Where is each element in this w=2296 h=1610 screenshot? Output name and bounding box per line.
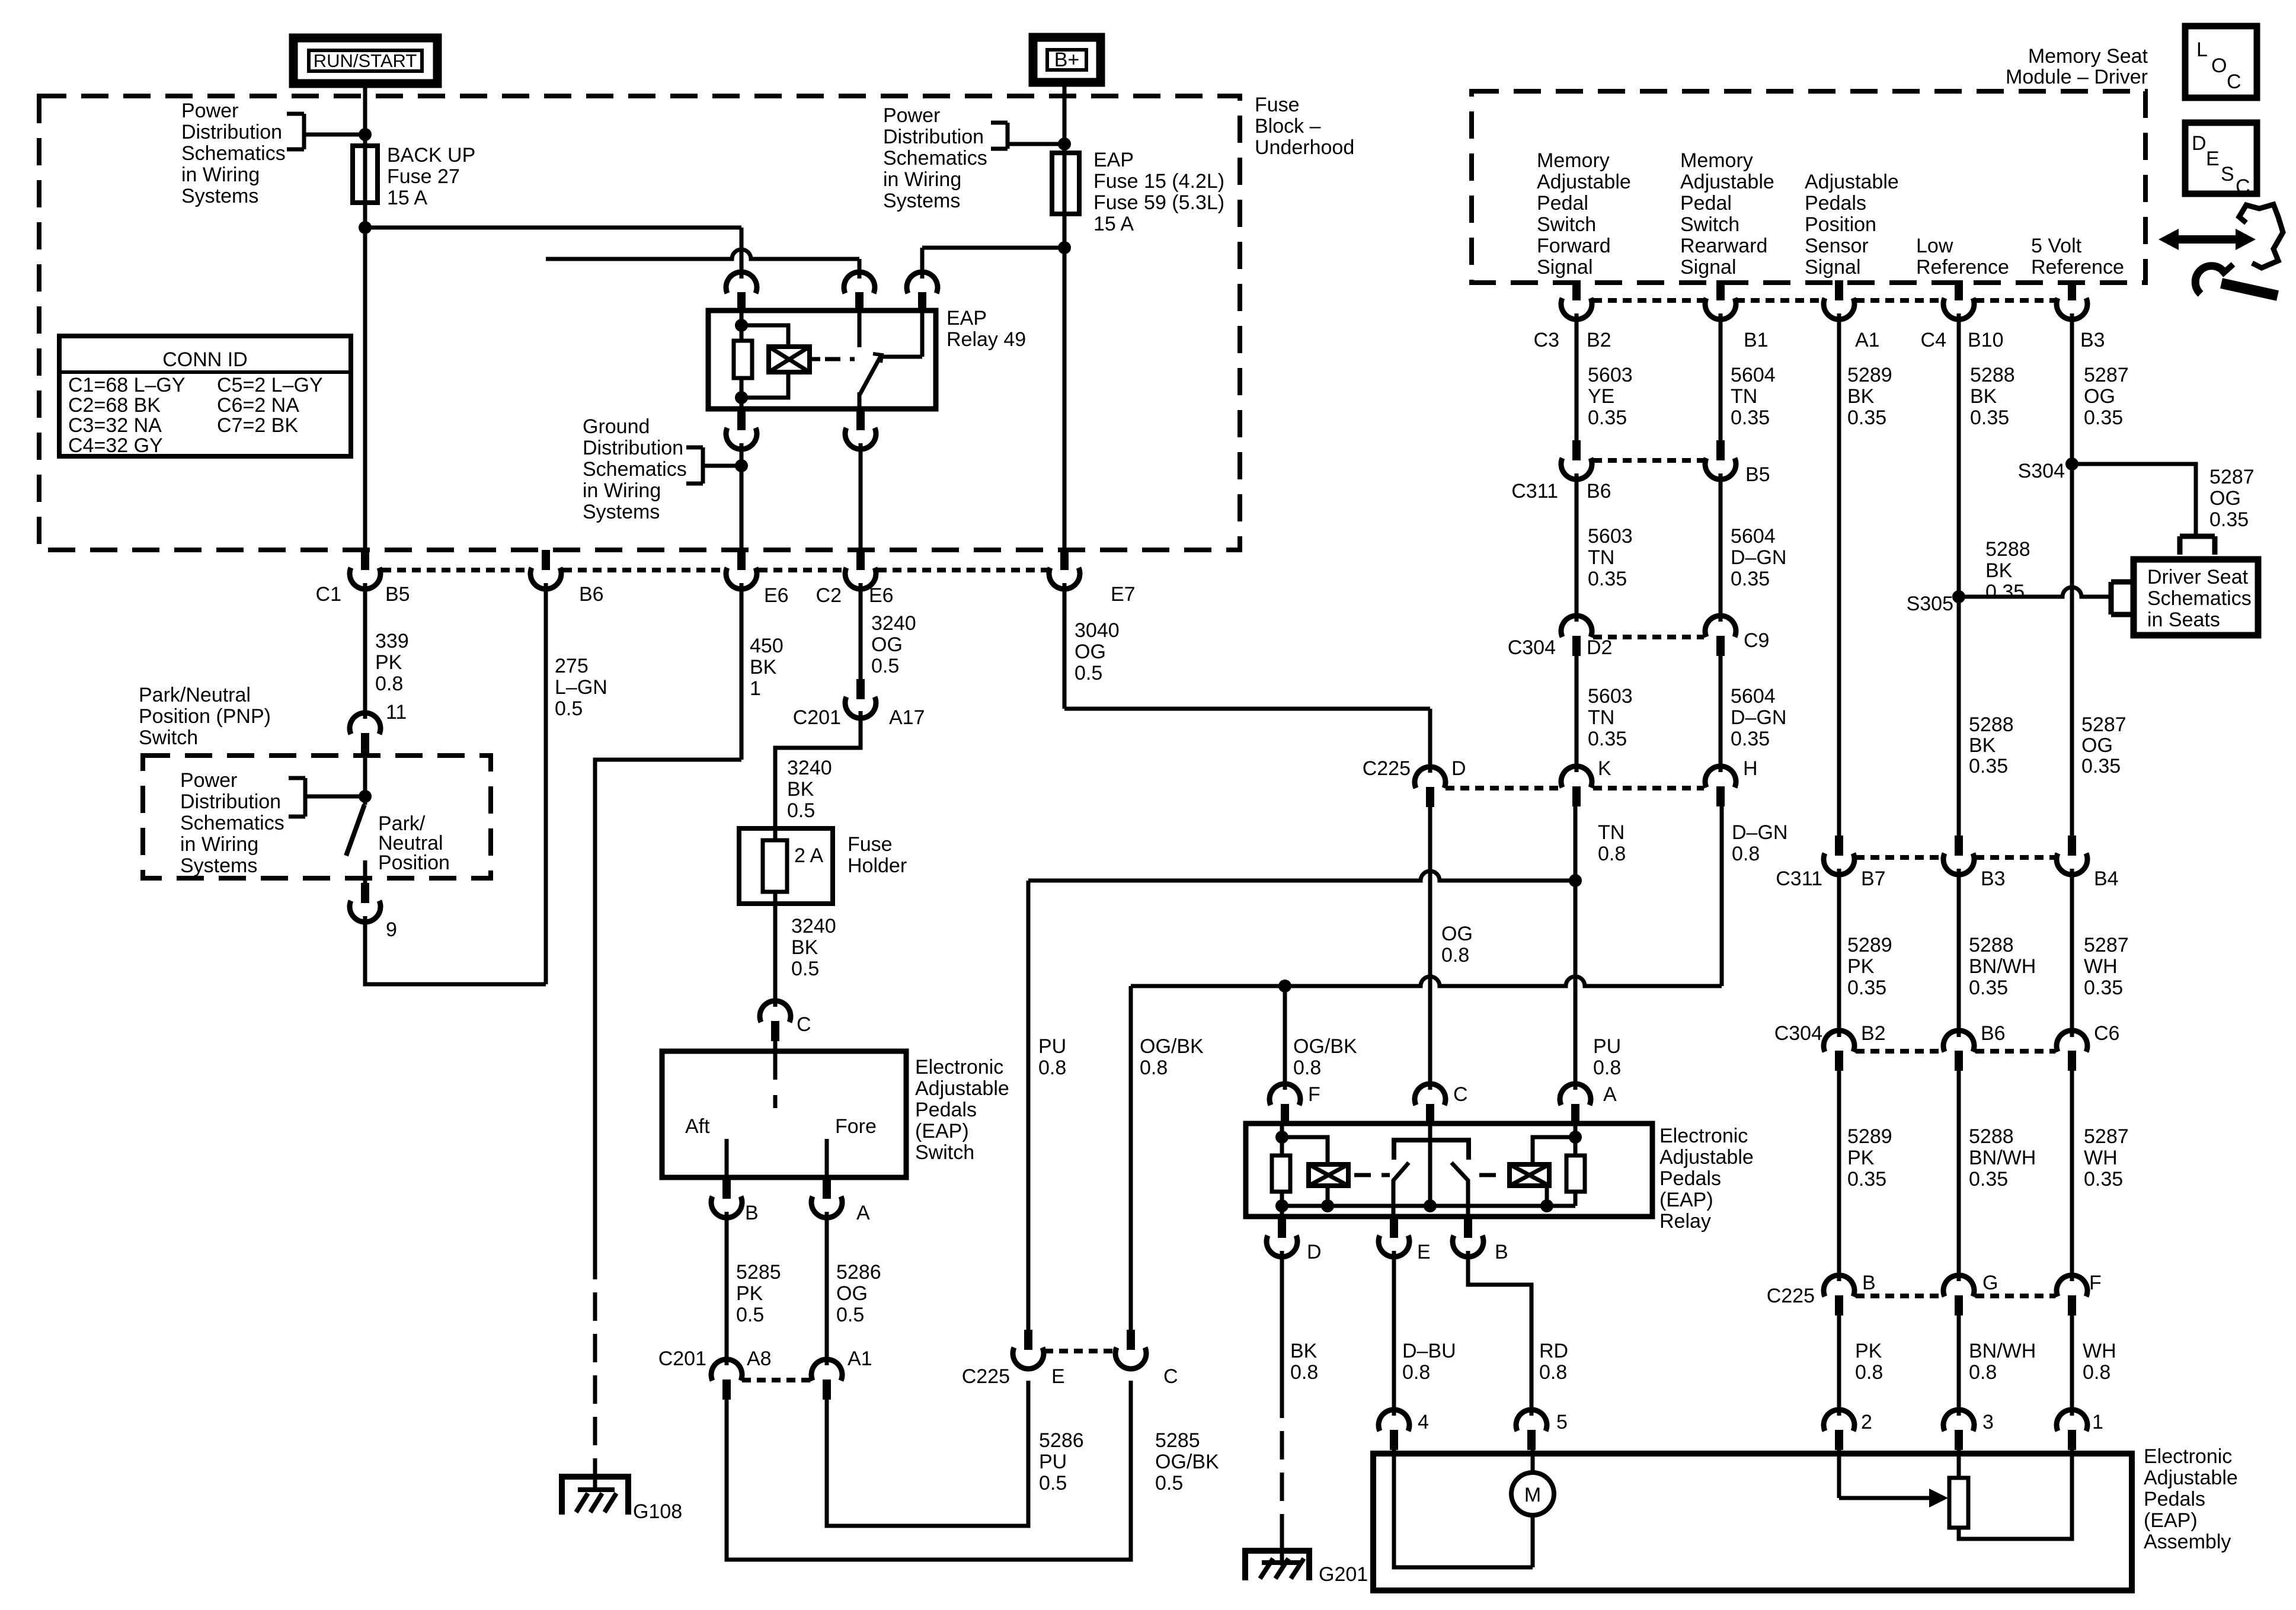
relay blade right	[1451, 1163, 1468, 1217]
connector row dashes C225 lower	[1044, 1349, 1115, 1353]
svg-text:Electronic: Electronic	[2144, 1445, 2232, 1468]
connector relay pin C	[1415, 1084, 1446, 1105]
wire 450 BK jog left	[595, 760, 741, 1251]
svg-text:0.35: 0.35	[1847, 977, 1886, 999]
svg-text:C2: C2	[816, 584, 842, 607]
wire 5288 BN/WH (B6-G)	[1957, 1071, 1961, 1281]
node PNP junction	[359, 790, 372, 803]
connector module pin C3/B2	[1572, 280, 1581, 300]
svg-text:5288: 5288	[1969, 1125, 2014, 1148]
power rail tag B+	[1033, 37, 1101, 82]
node relay49 coil bottom	[735, 391, 748, 404]
connector PNP pin 11	[350, 713, 380, 734]
svg-text:Power: Power	[180, 769, 237, 792]
EAP assembly box	[1373, 1454, 2132, 1590]
connector relay pin B	[1464, 1218, 1472, 1238]
svg-text:B6: B6	[579, 583, 604, 606]
svg-text:5286: 5286	[1039, 1429, 1084, 1452]
svg-text:Relay 49: Relay 49	[946, 328, 1026, 351]
wire motor to loop	[1531, 1515, 1535, 1567]
svg-text:Assembly: Assembly	[2144, 1531, 2231, 1553]
reference bracket Power Distribution (PNP)	[289, 776, 305, 780]
svg-text:PK: PK	[1855, 1340, 1882, 1362]
svg-text:TN: TN	[1598, 821, 1625, 844]
relay coil1 branch	[1282, 1137, 1328, 1164]
relay K49 box	[708, 311, 936, 409]
svg-text:Power: Power	[181, 100, 238, 122]
wire 5604 D-GN (B5-C9)	[1719, 473, 1723, 622]
svg-text:15 A: 15 A	[1093, 213, 1134, 235]
svg-text:1: 1	[2092, 1411, 2103, 1433]
connector C311 pin B5	[1716, 440, 1725, 460]
svg-text:A: A	[1603, 1083, 1617, 1106]
sensor loop to pin1	[1959, 1450, 2072, 1539]
svg-text:D–GN: D–GN	[1731, 706, 1786, 729]
wire relay contact to C2/E6	[859, 443, 863, 550]
svg-text:Fuse 59 (5.3L): Fuse 59 (5.3L)	[1093, 191, 1224, 214]
wire 5603 TN (B6-D2)	[1575, 473, 1579, 622]
svg-text:OG: OG	[1441, 923, 1473, 945]
svg-text:2 A: 2 A	[794, 844, 823, 867]
svg-text:BN/WH: BN/WH	[1969, 1340, 2036, 1362]
fuse 2A in holder	[773, 828, 778, 840]
node junction ground-distribution branch	[735, 459, 748, 472]
svg-text:Pedal: Pedal	[1680, 192, 1732, 215]
svg-text:0.8: 0.8	[1140, 1057, 1168, 1079]
node relay coil1 bottom	[1275, 1199, 1288, 1212]
connector C201 pin A1	[811, 1359, 842, 1381]
svg-text:Switch: Switch	[1680, 213, 1739, 236]
svg-text:Pedal: Pedal	[1537, 192, 1588, 215]
svg-text:BK: BK	[1847, 385, 1875, 408]
svg-text:BK: BK	[1985, 559, 2013, 582]
resistor relay49 internal	[734, 341, 752, 378]
svg-text:Adjustable: Adjustable	[915, 1077, 1009, 1100]
svg-text:B: B	[1495, 1241, 1508, 1263]
connector EAP assembly pin 4	[1379, 1410, 1409, 1431]
svg-text:C: C	[2227, 71, 2241, 93]
svg-text:Fuse 27: Fuse 27	[387, 165, 460, 188]
wire 5289 PK (B7-B2)	[1837, 869, 1841, 1037]
wire 5287 OG (lower)	[2070, 464, 2074, 837]
node bus coil2 link	[1540, 1199, 1553, 1212]
svg-text:PK: PK	[1847, 1147, 1875, 1169]
wire S304 branch to driver seat	[2072, 464, 2196, 536]
svg-text:0.35: 0.35	[2084, 977, 2123, 999]
connector EAP assembly pin 1	[2057, 1410, 2087, 1431]
svg-text:Module – Driver: Module – Driver	[2006, 66, 2148, 88]
wire relay49 parallel branch	[741, 325, 788, 347]
svg-text:RD: RD	[1539, 1340, 1568, 1362]
connector C311 pin B7	[1835, 836, 1843, 856]
svg-text:0.8: 0.8	[1293, 1057, 1321, 1079]
svg-text:0.35: 0.35	[1970, 406, 2009, 429]
svg-text:5604: 5604	[1731, 525, 1776, 548]
svg-text:5287: 5287	[2081, 713, 2126, 736]
svg-text:Position: Position	[378, 852, 450, 874]
svg-text:0.8: 0.8	[1038, 1057, 1066, 1079]
connector C225 pin C	[1127, 1330, 1135, 1350]
wire 339 PK	[363, 583, 367, 719]
wire 5604 TN	[1719, 313, 1723, 440]
svg-text:Distribution: Distribution	[181, 121, 282, 143]
svg-text:Schematics: Schematics	[181, 142, 286, 165]
svg-text:in Wiring: in Wiring	[583, 479, 661, 502]
connector C225 pin H	[1705, 766, 1736, 788]
svg-text:C6=2 NA: C6=2 NA	[217, 394, 299, 417]
svg-text:D: D	[1307, 1241, 1322, 1263]
svg-text:C: C	[1453, 1083, 1468, 1106]
relay coil2 (box with X)	[1510, 1164, 1549, 1186]
connector row dashes C304 left	[1593, 635, 1704, 639]
connector relay pin D	[1278, 1218, 1286, 1238]
connector fuse block pin E6	[737, 550, 746, 570]
adjust icon pedal outline	[2239, 204, 2283, 268]
wire pin5 to motor	[1531, 1450, 1535, 1473]
wire A1 U-turn to C225 E	[827, 1381, 1028, 1526]
svg-text:Schematics: Schematics	[883, 147, 987, 169]
svg-text:0.35: 0.35	[1588, 406, 1627, 429]
svg-text:450: 450	[750, 635, 784, 657]
svg-text:Power: Power	[883, 104, 940, 127]
svg-text:0.5: 0.5	[1155, 1472, 1183, 1494]
svg-text:TN: TN	[1731, 385, 1757, 408]
svg-text:E: E	[2206, 148, 2220, 170]
node junction OG/BK branch	[1278, 980, 1291, 993]
svg-text:(EAP): (EAP)	[915, 1120, 969, 1142]
relay blade left	[1393, 1163, 1409, 1217]
svg-text:in Wiring: in Wiring	[180, 833, 258, 856]
wire 5604 D-GN (C9-H)	[1719, 656, 1723, 772]
memory seat module dashed outline	[1472, 91, 2145, 283]
wire relay49 switch feed from B+ junction	[922, 246, 1064, 250]
svg-text:A8: A8	[747, 1347, 772, 1370]
reference bracket Power Distribution (B+)	[991, 121, 1008, 125]
wire 5287 OG (upper)	[2070, 313, 2074, 464]
wire WH 0.8	[2070, 1315, 2074, 1416]
svg-text:C7=2 BK: C7=2 BK	[217, 414, 298, 437]
svg-text:5289: 5289	[1847, 364, 1892, 386]
svg-text:in Wiring: in Wiring	[181, 164, 260, 186]
wire OG/BK 0.8 branch to relay F	[1283, 986, 1287, 1090]
connector pin relay49 coil top E6-side	[726, 272, 757, 293]
wire net OG/BK 0.8 (line2)	[1131, 977, 1722, 986]
wire 275 L-GN (B6 column)	[544, 583, 548, 984]
svg-text:BK: BK	[1969, 734, 1996, 757]
svg-text:Aft: Aft	[685, 1115, 710, 1138]
mechanical link dashes relay49	[825, 357, 855, 361]
connector C304 pin D2	[1561, 616, 1592, 637]
svg-text:Pedals: Pedals	[1805, 192, 1866, 215]
svg-text:C4=32 GY: C4=32 GY	[68, 434, 163, 457]
connector row dashes C311 right	[1856, 855, 1942, 860]
mechanical link dashes (left)	[1354, 1173, 1390, 1177]
svg-text:S305: S305	[1907, 593, 1953, 615]
svg-text:15 A: 15 A	[387, 187, 427, 209]
svg-text:A: A	[856, 1202, 870, 1224]
svg-text:WH: WH	[2084, 1147, 2118, 1169]
svg-text:G: G	[1982, 1272, 1998, 1294]
svg-text:Memory Seat: Memory Seat	[2028, 45, 2148, 68]
relay coil1 (box with X)	[1309, 1164, 1348, 1186]
node junction on RUN/START wire at bracket	[359, 128, 372, 141]
svg-text:E6: E6	[764, 584, 789, 607]
svg-text:B2: B2	[1861, 1022, 1886, 1045]
svg-text:CONN ID: CONN ID	[162, 348, 248, 371]
svg-text:OG/BK: OG/BK	[1140, 1035, 1204, 1058]
connector C311 pin B4	[2068, 836, 2076, 856]
svg-text:C1=68 L–GY: C1=68 L–GY	[68, 374, 186, 396]
connector module pin B3	[2068, 280, 2076, 300]
svg-text:OG/BK: OG/BK	[1293, 1035, 1357, 1058]
svg-text:Holder: Holder	[848, 854, 907, 877]
svg-text:0.5: 0.5	[791, 958, 819, 980]
connector relay pin E	[1390, 1218, 1398, 1238]
relay coil2 bottom link	[1545, 1186, 1549, 1206]
node relay49 coil top	[735, 319, 748, 332]
DESC box	[2185, 123, 2257, 194]
svg-text:5603: 5603	[1588, 364, 1633, 386]
svg-text:B5: B5	[1745, 463, 1770, 486]
svg-text:Schematics: Schematics	[180, 812, 284, 834]
svg-text:Switch: Switch	[139, 726, 198, 749]
svg-text:Sensor: Sensor	[1805, 235, 1869, 257]
svg-text:C9: C9	[1744, 629, 1769, 652]
PNP lower contact	[363, 860, 367, 883]
svg-text:Pedals: Pedals	[915, 1099, 977, 1121]
svg-text:9: 9	[386, 918, 397, 941]
svg-text:C225: C225	[1767, 1285, 1815, 1307]
svg-text:5288: 5288	[1969, 713, 2014, 736]
svg-text:H: H	[1743, 757, 1758, 780]
svg-text:PU: PU	[1038, 1035, 1066, 1058]
svg-text:5604: 5604	[1731, 685, 1776, 708]
svg-text:0.8: 0.8	[1969, 1361, 1997, 1384]
svg-text:0.35: 0.35	[1588, 728, 1627, 750]
svg-text:BK: BK	[1290, 1340, 1318, 1362]
svg-text:0.35: 0.35	[2209, 508, 2249, 531]
wire 5288 BK (upper)	[1957, 313, 1961, 597]
wire 450 BK from E6	[740, 583, 744, 760]
svg-text:0.8: 0.8	[375, 673, 403, 695]
svg-text:5288: 5288	[1970, 364, 2015, 386]
svg-text:0.5: 0.5	[1039, 1472, 1067, 1494]
svg-text:B3: B3	[1981, 868, 2006, 890]
mechanical link dashes (right)	[1479, 1173, 1505, 1177]
connector C1 pin B5	[361, 550, 369, 570]
svg-text:E7: E7	[1111, 583, 1136, 606]
svg-text:C304: C304	[1508, 636, 1556, 659]
svg-text:RUN/START: RUN/START	[314, 50, 417, 71]
wire 5287 WH (B4-C6)	[2070, 869, 2074, 1037]
svg-text:BN/WH: BN/WH	[1969, 1147, 2036, 1169]
svg-text:1: 1	[750, 677, 761, 700]
svg-text:C6: C6	[2094, 1022, 2119, 1045]
svg-text:Systems: Systems	[583, 501, 660, 523]
connector EAP assembly pin 2	[1824, 1410, 1854, 1431]
svg-text:0.35: 0.35	[1731, 568, 1770, 590]
svg-text:0.5: 0.5	[736, 1304, 764, 1326]
connector row dashes C311 left	[1593, 458, 1704, 463]
CONN ID table box	[59, 336, 351, 456]
relay49 coil wire	[740, 311, 744, 409]
wire 5288 BN/WH (B3-B6)	[1957, 869, 1961, 1037]
svg-text:Systems: Systems	[883, 190, 960, 212]
wire BK 0.8	[1280, 1251, 1284, 1390]
node junction below fuse 27	[359, 221, 372, 234]
connector C304 pin B6	[1943, 1030, 1974, 1052]
svg-text:0.35: 0.35	[1969, 977, 2008, 999]
svg-text:YE: YE	[1588, 385, 1614, 408]
wire 3240 BK below holder	[773, 904, 778, 1007]
svg-text:0.8: 0.8	[1598, 843, 1626, 865]
svg-text:A17: A17	[889, 706, 925, 729]
svg-text:Fuse: Fuse	[1255, 94, 1300, 116]
svg-text:E6: E6	[869, 584, 894, 607]
svg-text:OG: OG	[1075, 641, 1106, 663]
svg-text:5603: 5603	[1588, 685, 1633, 708]
svg-text:C2=68 BK: C2=68 BK	[68, 394, 161, 417]
connector C225 pin K	[1561, 766, 1592, 788]
connector C201 pin A8	[711, 1359, 742, 1381]
svg-text:Fore: Fore	[835, 1115, 877, 1138]
svg-text:BN/WH: BN/WH	[1969, 955, 2036, 978]
EAP switch Fore contact	[825, 1139, 829, 1177]
wire 3240 OG from C2/E6	[859, 583, 863, 679]
svg-text:M: M	[1524, 1484, 1541, 1506]
driver seat schematics box	[2134, 559, 2258, 635]
wire RD 0.8	[1468, 1251, 1531, 1416]
svg-text:0.5: 0.5	[555, 697, 583, 720]
svg-text:Electronic: Electronic	[915, 1056, 1003, 1078]
svg-text:A1: A1	[848, 1347, 872, 1370]
node junction PU/TN	[1569, 874, 1582, 887]
svg-text:Signal: Signal	[1805, 256, 1861, 279]
wire PNP 9 down and right	[365, 916, 546, 984]
svg-text:Underhood: Underhood	[1255, 136, 1354, 159]
wire D-GN 0.8 to line2	[1720, 806, 1724, 986]
svg-text:Signal: Signal	[1537, 256, 1593, 279]
svg-text:0.35: 0.35	[2084, 406, 2123, 429]
wire fuse27 to relay coil (line A)	[365, 226, 741, 230]
svg-text:2: 2	[1861, 1411, 1872, 1433]
svg-text:0.35: 0.35	[1847, 406, 1886, 429]
wire PK 0.8	[1837, 1315, 1841, 1416]
svg-text:Switch: Switch	[1537, 213, 1596, 236]
relay49 switch blade	[859, 356, 881, 395]
svg-text:C201: C201	[793, 706, 841, 729]
node splice S304	[2065, 457, 2078, 470]
svg-text:OG: OG	[836, 1282, 868, 1305]
svg-text:Systems: Systems	[181, 185, 258, 207]
svg-text:0.5: 0.5	[787, 799, 815, 822]
svg-text:B5: B5	[385, 583, 410, 606]
EAP switch common dashes	[773, 1052, 778, 1108]
svg-text:Fuse: Fuse	[848, 833, 893, 856]
svg-text:0.5: 0.5	[871, 655, 899, 677]
svg-text:5 Volt: 5 Volt	[2031, 235, 2082, 257]
PNP switch blade	[363, 796, 367, 805]
wire relay coil return to E6	[740, 443, 744, 550]
EAP switch box	[662, 1051, 906, 1177]
svg-text:Relay: Relay	[1659, 1210, 1711, 1233]
position sensor resistor	[1957, 1450, 1961, 1478]
svg-text:C3=32 NA: C3=32 NA	[68, 414, 162, 437]
relay coil1 bottom link	[1326, 1186, 1330, 1206]
node junction on B+ wire at bracket	[1058, 137, 1071, 151]
wire BN/WH 0.8	[1957, 1315, 1961, 1416]
wire 5285 PK	[725, 1212, 729, 1365]
PNP switch dashed outline	[143, 756, 491, 878]
svg-text:L–GN: L–GN	[555, 676, 607, 699]
svg-text:C1: C1	[316, 583, 341, 606]
svg-text:Schematics: Schematics	[583, 458, 687, 481]
connector PNP pin 9	[361, 883, 369, 903]
svg-text:5286: 5286	[836, 1261, 881, 1283]
connector C304 pin C9	[1705, 616, 1736, 637]
connector module pin C4/B10	[1955, 280, 1963, 300]
wire PNP pin11 stub	[363, 739, 367, 796]
svg-text:TN: TN	[1588, 706, 1614, 729]
svg-text:5288: 5288	[1969, 934, 2014, 956]
svg-text:Adjustable: Adjustable	[1680, 171, 1774, 193]
svg-text:OG: OG	[871, 633, 903, 656]
svg-text:O: O	[2211, 55, 2227, 77]
svg-text:S304: S304	[2018, 460, 2065, 482]
wire net PU 0.8 (line1)	[1028, 871, 1575, 881]
relay49 fixed contact	[858, 311, 862, 347]
svg-text:Adjustable: Adjustable	[1805, 171, 1899, 193]
svg-text:C: C	[797, 1013, 811, 1036]
wire 5603 TN (D2-K)	[1575, 656, 1579, 772]
svg-text:0.35: 0.35	[1731, 406, 1770, 429]
connector C2 pin E6	[856, 550, 865, 570]
svg-text:L: L	[2196, 39, 2208, 61]
svg-text:D: D	[1451, 757, 1466, 780]
svg-text:3240: 3240	[871, 612, 916, 635]
node splice S305	[1952, 590, 1965, 603]
svg-text:5287: 5287	[2209, 466, 2255, 488]
motor M	[1511, 1473, 1554, 1515]
fuse EAP Fuse 15/59	[1052, 153, 1079, 214]
adjust icon arrow	[2176, 235, 2238, 244]
connector module pin B1	[1716, 280, 1725, 300]
svg-text:0.35: 0.35	[1969, 755, 2008, 777]
svg-text:0.8: 0.8	[2083, 1361, 2110, 1384]
svg-text:5289: 5289	[1847, 934, 1892, 956]
svg-text:Pedals: Pedals	[2144, 1488, 2205, 1510]
reference bracket Power Distribution (top left)	[287, 112, 304, 116]
relay center post	[1428, 1140, 1432, 1206]
svg-text:Schematics: Schematics	[2147, 587, 2252, 610]
wire B+ feed (1796)	[1063, 82, 1067, 550]
svg-text:Distribution: Distribution	[583, 437, 683, 459]
svg-text:E: E	[1417, 1241, 1431, 1263]
wire 5286 OG	[825, 1212, 829, 1365]
svg-text:5288: 5288	[1985, 538, 2030, 561]
svg-text:PU: PU	[1039, 1451, 1067, 1473]
svg-text:Driver Seat: Driver Seat	[2147, 566, 2249, 588]
svg-text:B4: B4	[2094, 868, 2119, 890]
svg-text:S: S	[2221, 163, 2234, 185]
adjust icon wrench	[2221, 283, 2278, 296]
svg-text:BK: BK	[1970, 385, 1997, 408]
svg-text:Rearward: Rearward	[1680, 235, 1767, 257]
svg-text:C225: C225	[962, 1365, 1010, 1388]
svg-text:Signal: Signal	[1680, 256, 1737, 279]
connector pin relay49 contact bottom	[856, 410, 865, 430]
fork terminal to driver seat box (left)	[2109, 582, 2114, 614]
